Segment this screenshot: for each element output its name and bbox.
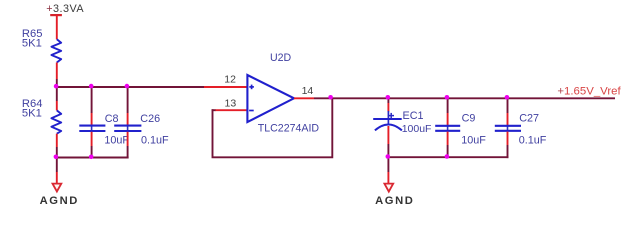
wire AGND-left stem xyxy=(56,158,58,173)
capacitor C27 xyxy=(495,112,547,146)
svg-text:10uF: 10uF xyxy=(104,134,129,146)
svg-text:10uF: 10uF xyxy=(461,135,486,147)
svg-text:C27: C27 xyxy=(519,112,539,124)
svg-text:AGND: AGND xyxy=(375,195,414,207)
junction C8 bottom xyxy=(89,155,94,160)
junction C8 top xyxy=(89,84,94,89)
svg-text:C8: C8 xyxy=(105,113,119,125)
junction C26 top xyxy=(125,84,130,89)
wire AGND-right stem xyxy=(387,157,389,172)
wire output bus xyxy=(314,97,615,99)
svg-text:+3.3VA: +3.3VA xyxy=(46,3,84,15)
op-amp U2D xyxy=(247,52,319,135)
wire C26 lower xyxy=(127,146,129,158)
wire R64 bottom to bottom-left bus xyxy=(56,147,58,158)
svg-text:TLC2274AID: TLC2274AID xyxy=(258,123,320,135)
wire node A to R64 xyxy=(56,86,58,101)
svg-text:EC1: EC1 xyxy=(403,110,424,122)
resistor R65 xyxy=(22,28,61,79)
capacitor C8 xyxy=(79,113,129,146)
svg-text:13: 13 xyxy=(225,98,237,110)
junction EC1 top xyxy=(386,95,391,100)
svg-text:C26: C26 xyxy=(140,113,160,125)
wire C8 upper xyxy=(91,87,93,113)
junction EC1 bottom / AGND xyxy=(386,154,391,159)
wire C9 lower xyxy=(447,145,449,157)
svg-text:5K1: 5K1 xyxy=(22,37,42,49)
svg-text:14: 14 xyxy=(302,85,314,97)
svg-text:12: 12 xyxy=(224,74,236,86)
svg-text:AGND: AGND xyxy=(40,195,79,207)
resistor R64 xyxy=(22,98,61,147)
junction C9 top xyxy=(445,95,450,100)
op-amp U2D pin 13 wire xyxy=(212,109,248,111)
op-amp U2D pin 14 wire xyxy=(294,97,314,99)
svg-text:0.1uF: 0.1uF xyxy=(519,135,547,147)
wire C27 upper xyxy=(507,98,509,113)
junction bottom-left bus at AGND xyxy=(54,155,59,160)
wire bottom-left bus xyxy=(57,157,129,159)
capacitor EC1 xyxy=(373,103,431,144)
junction feedback/output xyxy=(328,95,333,100)
wire bottom-right bus xyxy=(388,156,508,158)
ground AGND left xyxy=(40,172,79,207)
wire C27 lower xyxy=(507,145,509,158)
wire EC1 upper xyxy=(387,98,389,103)
wire C9 upper xyxy=(447,98,449,113)
svg-text:+1.65V_Vref: +1.65V_Vref xyxy=(557,86,621,98)
wire EC1 lower xyxy=(387,144,389,157)
capacitor C26 xyxy=(114,113,169,146)
wire feedback loop xyxy=(213,98,333,157)
svg-text:5K1: 5K1 xyxy=(22,108,42,120)
junction C27 top xyxy=(505,95,510,100)
svg-text:C9: C9 xyxy=(462,112,476,124)
ground AGND right xyxy=(375,172,414,207)
wire top-left bus xyxy=(57,86,204,88)
capacitor C9 xyxy=(435,112,486,146)
wire C8 lower xyxy=(91,146,93,158)
wire R65 bottom to node A xyxy=(56,79,58,88)
junction node A (R65/R64/bus) xyxy=(54,84,59,89)
svg-text:U2D: U2D xyxy=(270,52,292,64)
wire C26 upper xyxy=(127,87,129,113)
power symbol +3.3VA xyxy=(46,3,84,40)
junction C9 bottom xyxy=(445,154,450,159)
svg-text:100uF: 100uF xyxy=(402,123,432,135)
svg-text:0.1uF: 0.1uF xyxy=(141,134,169,146)
op-amp U2D pin 12 wire xyxy=(204,86,247,88)
